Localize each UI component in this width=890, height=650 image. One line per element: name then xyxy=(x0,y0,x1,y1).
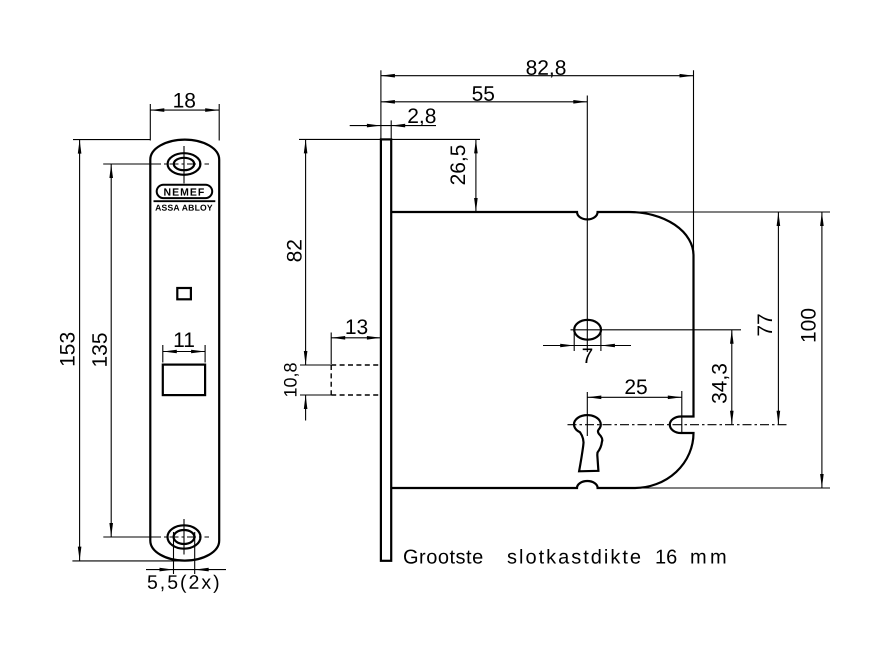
dim 77 arrow bottom xyxy=(777,411,781,425)
svg-text:77: 77 xyxy=(754,313,777,336)
latch bolt hidden (dashed) bottom xyxy=(331,394,381,396)
dim 153 ext bottom xyxy=(72,560,181,562)
dim 82,8 line xyxy=(381,75,694,77)
dim 25 ext right xyxy=(681,391,683,434)
latch bolt hidden (dashed) top xyxy=(331,364,381,366)
svg-text:5,5(2x): 5,5(2x) xyxy=(147,572,222,594)
svg-text:10,8: 10,8 xyxy=(280,362,300,397)
dim 135 arrow top xyxy=(109,164,113,178)
dim 77 line xyxy=(777,212,779,425)
top screw centerline vertical xyxy=(183,146,185,183)
dim 82,8 arrow right xyxy=(680,74,694,78)
dim 55 arrow left xyxy=(381,100,395,104)
dim 82 line xyxy=(305,139,307,365)
spindle hole xyxy=(574,320,601,340)
dim 135 line xyxy=(110,164,112,537)
dim 82 arrow bottom xyxy=(304,351,308,365)
svg-text:slotkastdikte: slotkastdikte xyxy=(507,547,643,569)
dim 2,8 line xyxy=(350,125,436,127)
svg-text:7: 7 xyxy=(582,345,594,368)
dim 100 line xyxy=(821,212,823,488)
svg-text:18: 18 xyxy=(173,89,196,112)
dim 55 arrow right xyxy=(573,100,587,104)
logo divider line xyxy=(154,200,216,202)
dim 10,8 arrow bottom xyxy=(304,395,308,409)
dim 13 arrow right xyxy=(367,336,381,340)
dim 82,8 ext right xyxy=(693,70,695,255)
bottom screw hole outer xyxy=(168,525,201,548)
dim 153 arrow bottom xyxy=(78,547,82,561)
lock body outline xyxy=(391,212,693,488)
top screw hole inner xyxy=(174,158,194,170)
svg-text:153: 153 xyxy=(56,332,79,367)
dim 5,5 ext right xyxy=(194,532,196,574)
dim 18 ext line left xyxy=(149,104,151,141)
svg-text:2,8: 2,8 xyxy=(407,105,436,128)
svg-text:NEMEF: NEMEF xyxy=(164,187,206,199)
keyhole vertical centerline xyxy=(586,392,588,436)
dim 7 line xyxy=(543,345,631,347)
dim 7 arrow left xyxy=(560,344,574,348)
dim 25 arrow left xyxy=(587,396,601,400)
latch square hole xyxy=(163,365,205,396)
dim 5,5 line xyxy=(146,569,226,571)
svg-text:82,8: 82,8 xyxy=(526,57,567,80)
dim 2,8 ext right short xyxy=(390,120,392,139)
dim 82,8 arrow left xyxy=(381,74,395,78)
dim 135 ext bottom xyxy=(103,536,158,538)
dim 82 arrow top xyxy=(304,139,308,153)
dim 10,8 line bottom xyxy=(305,395,307,421)
dim 82 ext top (left of plate) xyxy=(299,138,381,140)
dim 82,8 ext left (shared with 55, 2,8) xyxy=(380,70,382,139)
dim 55 line xyxy=(381,101,587,103)
dim 153 ext top xyxy=(73,139,150,141)
svg-text:100: 100 xyxy=(797,308,820,343)
dim 153 line xyxy=(79,140,81,561)
svg-text:55: 55 xyxy=(472,83,495,106)
dim 5,5 ext left xyxy=(173,532,175,574)
dim 11 arrow right xyxy=(191,350,205,354)
dim 26,5 arrow top xyxy=(474,139,478,153)
dim 13 ext left xyxy=(330,333,332,365)
svg-text:135: 135 xyxy=(89,332,112,367)
dim 34,3 arrow bottom xyxy=(730,411,734,425)
dim 7 ext right xyxy=(600,333,602,351)
dim 100 arrow bottom xyxy=(820,474,824,488)
svg-text:11: 11 xyxy=(173,329,195,352)
dim 2,8 arrow right xyxy=(391,124,405,128)
dim 25 arrow right xyxy=(668,396,682,400)
svg-text:34,3: 34,3 xyxy=(708,363,731,404)
dim 11 line xyxy=(163,351,205,353)
spindle vertical centerline / 55 ext xyxy=(586,96,588,353)
dim 34,3 arrow top xyxy=(730,330,734,344)
bottom screw hole inner xyxy=(174,530,195,544)
dim 13 line xyxy=(331,337,381,339)
dim 2,8 arrow left xyxy=(367,124,381,128)
keyhole/slot horizontal centerline dashed xyxy=(568,424,789,426)
svg-text:16: 16 xyxy=(655,547,677,569)
keyhole xyxy=(574,415,602,471)
dim 18 line xyxy=(150,109,219,111)
svg-text:25: 25 xyxy=(624,376,647,399)
dim 7 ext left xyxy=(573,333,575,351)
top screw hole outer xyxy=(168,153,201,175)
dim 18 ext line right xyxy=(218,104,220,141)
svg-text:Grootste: Grootste xyxy=(403,547,484,569)
dim 10,8 ext top xyxy=(300,364,331,366)
bottom screw centerline vertical xyxy=(183,519,185,555)
dim 7 arrow right xyxy=(601,344,615,348)
dim 135 arrow bottom xyxy=(109,523,113,537)
faceplate side view xyxy=(381,139,391,560)
svg-text:26,5: 26,5 xyxy=(447,145,470,186)
top screw centerline horizontal dashed xyxy=(152,163,209,165)
dim 11 ext left xyxy=(162,345,164,363)
dim 77/100 ext top xyxy=(600,211,830,213)
dim 11 arrow left xyxy=(163,350,177,354)
dim 5,5 arrow left xyxy=(160,568,174,572)
small square window xyxy=(177,288,191,299)
dim 26,5 ext top (right of plate) xyxy=(391,138,480,140)
latch bolt hidden (dashed) left xyxy=(330,365,332,395)
svg-text:13: 13 xyxy=(345,316,368,339)
dim 18 arrow right xyxy=(205,108,219,112)
svg-text:mm: mm xyxy=(690,547,730,569)
dim 153 arrow top xyxy=(78,140,82,154)
dim 26,5 line xyxy=(475,139,477,212)
svg-text:ASSA ABLOY: ASSA ABLOY xyxy=(155,203,213,213)
faceplate outline xyxy=(150,140,219,561)
dim 34,3 line xyxy=(731,330,733,425)
dim 100 ext bottom xyxy=(634,487,830,489)
dim 18 arrow left xyxy=(150,108,164,112)
dim 25 line xyxy=(587,396,682,398)
NEMEF logo oval xyxy=(157,185,213,198)
bottom screw centerline horizontal dashed xyxy=(152,536,209,538)
spindle hole horizontal centerline xyxy=(571,329,742,331)
dim 100 arrow top xyxy=(820,212,824,226)
dim 11 ext right xyxy=(204,345,206,363)
dim 10,8 ext bottom xyxy=(300,394,331,396)
dim 5,5 arrow right xyxy=(195,568,209,572)
dim 13 arrow left xyxy=(331,336,345,340)
dim 26,5 arrow bottom xyxy=(474,198,478,212)
dim 135 ext top xyxy=(103,163,158,165)
svg-text:82: 82 xyxy=(283,239,306,262)
dim 77 arrow top xyxy=(777,212,781,226)
